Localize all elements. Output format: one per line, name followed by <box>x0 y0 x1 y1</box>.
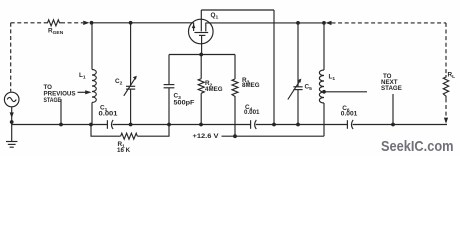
node generator to ground rail <box>10 120 14 124</box>
resistor R1 loop <box>91 125 121 137</box>
svg-text:16 K: 16 K <box>117 147 131 154</box>
arrowhead down on generator lead <box>10 112 14 118</box>
wire previous stage drop <box>60 99 62 125</box>
node rail R2 bottom <box>199 123 203 127</box>
wire tap arrow to L1 left <box>78 91 87 93</box>
node rail C5 bottom <box>296 123 300 127</box>
node L1 right tap <box>322 90 326 94</box>
wire L1 right bottom column <box>323 103 325 136</box>
capacitor C6 <box>346 120 348 129</box>
wire ground lead <box>11 125 13 142</box>
wire Q1 drain top rail <box>201 9 274 11</box>
resistor R_GEN <box>46 20 61 26</box>
arrowhead input into node <box>83 21 89 25</box>
wire bypass column <box>273 10 275 125</box>
wire dashed generator to R_GEN <box>11 22 46 24</box>
node rail previous-stage <box>59 123 63 127</box>
wire dashed R_L bottom <box>445 98 447 117</box>
svg-text:0.001: 0.001 <box>341 111 358 118</box>
capacitor C1 <box>106 120 108 129</box>
svg-text:4MEG: 4MEG <box>205 86 223 93</box>
svg-text:500pF: 500pF <box>174 99 195 106</box>
inductor L1 right <box>323 23 325 70</box>
resistor R_L <box>443 75 448 98</box>
wire bottom ground rail left <box>12 124 108 126</box>
arrowhead antenna into node <box>326 21 332 25</box>
svg-text:STAGE: STAGE <box>381 85 402 92</box>
node C5 top <box>296 21 300 25</box>
node rail L1 left bottom <box>89 123 93 127</box>
wire +12.6V feed <box>222 135 325 137</box>
wire dashed R_GEN to input arrow <box>61 22 83 24</box>
transistor Q1 <box>189 19 214 44</box>
wire source bus <box>169 54 235 56</box>
capacitor C4 <box>250 120 252 129</box>
generator AC source <box>4 92 19 107</box>
node rail C3 bottom <box>167 123 171 127</box>
node C2 top <box>129 21 133 25</box>
capacitor C3 <box>168 55 170 85</box>
wire rail C6 to right end <box>353 124 447 126</box>
wire Q1 source to R2 <box>200 55 202 79</box>
inductor L1 left <box>91 23 93 70</box>
node rail C2 bottom <box>129 123 133 127</box>
node L1 left top <box>90 21 94 25</box>
ground <box>6 141 17 143</box>
svg-text:0.001: 0.001 <box>244 109 260 116</box>
arrowhead tap L1 left <box>85 90 91 94</box>
node rail next-stage <box>391 123 395 127</box>
wire tap to next stage <box>324 91 367 93</box>
wire main gate line <box>90 22 194 24</box>
svg-text:SeekIC.com: SeekIC.com <box>381 138 454 155</box>
wire dashed to R_L top <box>332 22 447 24</box>
wire next stage drop <box>392 94 394 125</box>
svg-text:0.001: 0.001 <box>99 110 119 117</box>
node L1 right top <box>322 21 326 25</box>
node +12.6V <box>233 134 237 138</box>
wire generator bottom lead <box>11 107 13 125</box>
arrowhead R_L to rail <box>444 118 448 124</box>
svg-text:+12.6 V: +12.6 V <box>193 133 220 140</box>
capacitor C2 variable <box>130 23 132 87</box>
wire rail C4 to C6 <box>256 124 348 126</box>
wire dashed top-left vertical <box>10 23 12 92</box>
resistor R2 <box>198 79 204 94</box>
capacitor C5 variable <box>297 23 299 87</box>
wire rail C1 to C4 <box>113 124 251 126</box>
svg-text:8MEG: 8MEG <box>242 82 260 89</box>
node source bus center <box>199 53 203 57</box>
svg-text:STAGE: STAGE <box>44 97 62 104</box>
wire Q1 gate2 output <box>206 22 324 24</box>
node rail bypass column <box>272 123 276 127</box>
resistor R3 <box>234 55 236 80</box>
